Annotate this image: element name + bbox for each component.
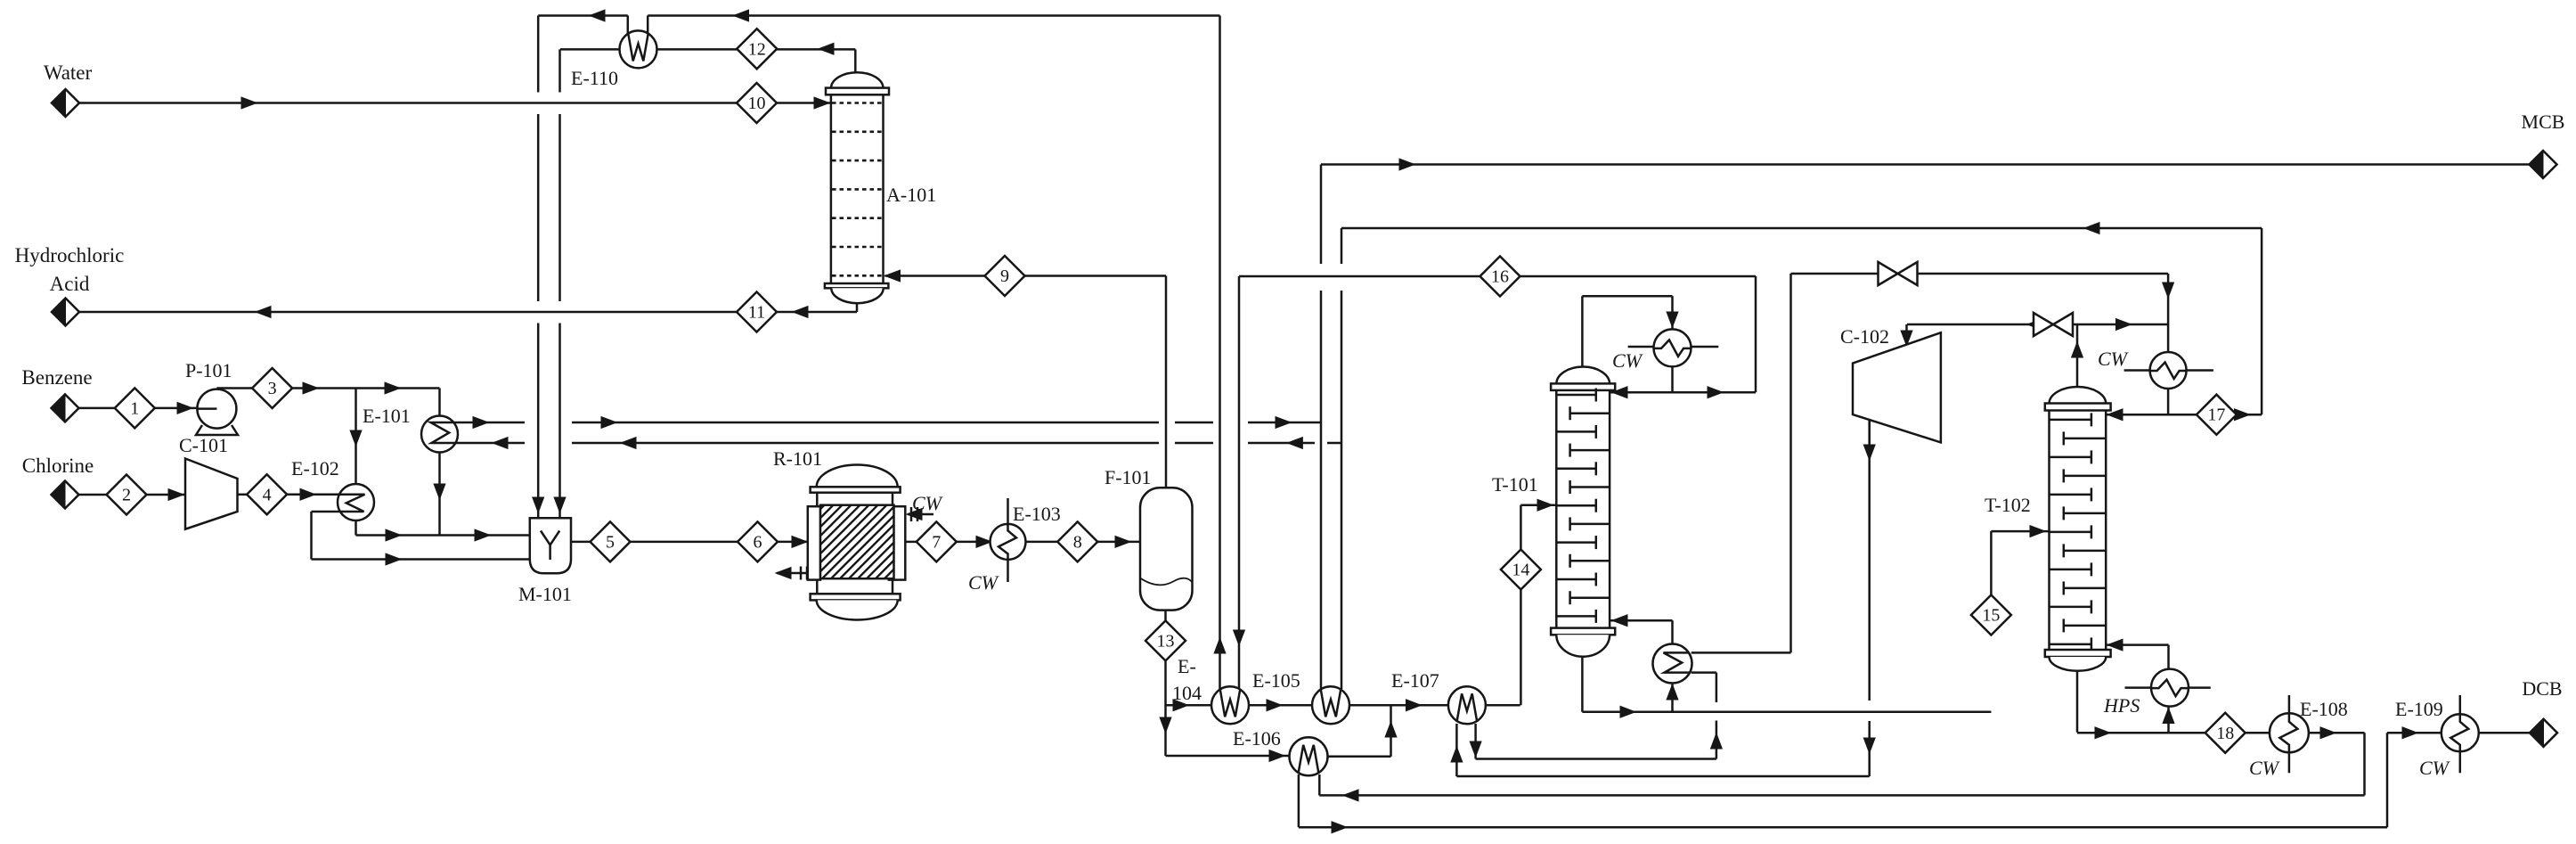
svg-text:P-101: P-101 [185,359,232,381]
svg-text:E-107: E-107 [1391,669,1439,692]
wire: E-106 coil to DCB cooling train (y=892.4) [1318,774,1321,795]
valve on heat pump return header [1879,262,1898,285]
wire: T-102 condenser CW stubs [2124,369,2150,372]
feed node Water [52,89,79,117]
wire: stream 9 line F-101 vapor to A-101 (y=309.5) [885,275,1167,277]
wire: stream 3 from P-101 to E-101 [216,387,252,389]
stream diamond 4 [247,474,287,514]
svg-text:14: 14 [1512,561,1529,580]
heat exchanger E-103 [990,524,1026,560]
T-101 reboiler [1653,644,1692,684]
wire: recycle line y=256 from T-102 distillate [1341,227,2262,230]
mixer M-101 [530,518,571,573]
wire: chlorine feed to C-101 [79,494,107,496]
wire: E-104 to E-110 coil header (top, y=17.5) [648,14,1219,17]
wire: reboiler vapor return to T-101 [1671,620,1674,644]
svg-text:E-105: E-105 [1252,669,1300,692]
wire: interchanger line A (y=474) [454,422,1322,424]
svg-text:2: 2 [122,486,131,505]
wire: E-109 cooling water line [2459,695,2462,773]
wire: stream 4 from C-101 to E-102 [238,494,248,496]
svg-text:E-110: E-110 [571,67,618,89]
svg-text:MCB: MCB [2522,111,2565,133]
svg-text:E-106: E-106 [1233,727,1281,750]
stream diamond 12 [737,29,777,69]
wire: branch down into E-102 top [355,389,357,486]
heat exchanger E-106 [1290,737,1328,775]
feed node Chlorine [52,481,79,509]
stream diamond 13 [1145,620,1186,660]
wire: stream 16 line T-101 distillate header (y=307) [1239,275,1756,278]
stream diamond 7 [917,521,957,561]
absorber column A-101 [831,72,884,88]
wire: stream 14 riser E-107 to T-101 feed [1520,505,1522,550]
svg-text:T-101: T-101 [1492,473,1538,496]
heat exchanger E-108 [2270,713,2309,752]
wire: MCB product line (y=184.5) [1321,163,2530,166]
wire: E-106 coil outlet line (y=928.2) [1298,774,1300,827]
svg-text:E-103: E-103 [1013,503,1061,525]
svg-text:Water: Water [44,61,93,84]
wire: F-101 bottoms through diamond 13 [1164,610,1167,621]
wire: E-103 cooling water line [1007,498,1009,582]
heat exchanger E-110 [620,30,657,68]
svg-text:104: 104 [1172,682,1202,704]
product node MCB [2530,151,2557,178]
wire: heat pump return header (y=307) with valve to T-102 condenser [1791,273,2169,275]
svg-text:6: 6 [754,532,762,552]
wire: E-102 chlorine outlet elbow [312,511,342,513]
wire: left downcomer to M-101 [537,16,540,518]
svg-text:CW: CW [2419,757,2450,779]
wire: A-101 bottoms elbow [856,303,859,313]
svg-text:A-101: A-101 [886,184,936,206]
wire: E-101 process outlet drop to mix header [438,453,441,536]
svg-text:Benzene: Benzene [21,366,92,389]
svg-text:E-: E- [1178,655,1196,677]
stream diamond 10 [737,83,777,123]
wire: riser from E-104 coil to top header [1219,16,1221,691]
HPS reboiler heater for T-102 [2151,669,2189,707]
wire: benzene mix header into M-101 (y=600.5) [355,520,357,536]
flash drum F-101 [1140,488,1193,610]
wire: stream 16 downcomer into E-104 coil [1238,276,1241,690]
wire: reboiler coil inlet from E-107 loop [1692,671,1716,674]
wire: T-102 overhead header with valve to C-102 (y=364) [1907,324,2168,326]
wire: downcomer to F-101 top [1165,276,1168,489]
wire: stream 7 R-101 outlet to E-103 [905,541,917,544]
svg-text:7: 7 [932,532,941,552]
svg-text:CW: CW [2098,348,2129,370]
wire: E-110 coil top-left stub [627,16,630,38]
wire: stream 5/6 mixer outlet to R-101 (y=608) [571,541,591,544]
svg-text:F-101: F-101 [1105,466,1152,488]
wire: T-101 condenser CW stubs [1628,346,1655,348]
wire: F-101 liquid to E-104 (y=791.3) [1166,704,1212,707]
wire: condenser drop T-102 [2167,324,2170,353]
heat exchanger E-101 [421,416,458,453]
wire: riser from 17 to recycle header [2261,228,2263,414]
svg-text:15: 15 [1982,606,2000,626]
wire: E-104 to E-105 [1249,704,1312,707]
wire: water feed line to diamond 10 and A-101 [79,102,738,104]
svg-text:12: 12 [748,39,766,59]
wire: interchanger line B (y=497) [456,442,1342,445]
svg-text:17: 17 [2207,406,2225,425]
wire: E-107 outlet to riser [1486,704,1520,707]
svg-text:5: 5 [606,532,615,552]
svg-text:R-101: R-101 [773,447,822,470]
wire: E-106 outlet riser to junction [1328,756,1391,758]
wire: T-101 reflux / distillate line (y=440.2) [1610,391,1756,394]
stream diamond 1 [115,388,155,428]
stream diamond 15 [1971,595,2011,635]
wire: A-101 overhead stub [854,49,857,73]
wire: condenser outlet to reflux line [1671,367,1674,393]
stream diamond 11 [737,292,777,332]
stream diamond 3 [252,368,292,408]
compressor C-101 [185,459,238,529]
T-101 condenser [1654,329,1692,366]
reactor R-101 CW inlet top right [908,513,933,516]
wire: C-102 discharge drop [1868,420,1871,452]
wire: stream 18 to E-108 [2246,732,2270,734]
column T-101 [1556,367,1610,384]
stream diamond 8 [1057,521,1097,561]
wire: HPS heater stubs [2125,686,2152,689]
svg-text:CW: CW [912,492,943,514]
wire: T-102 bottoms line [2076,671,2079,733]
heat exchanger E-102 [338,484,374,520]
pump P-101 [197,389,236,429]
wire: HPS vapor return to T-102 [2167,645,2170,669]
wire: E-101 process inlet drop [438,389,441,417]
product node DCB [2530,719,2557,747]
svg-text:CW: CW [2249,757,2280,779]
svg-text:T-102: T-102 [1985,494,2031,516]
wire: HPS reboiler feed branch [2167,707,2170,733]
wire: C-102 discharge to E-107 coil (y=871) [1455,724,1458,776]
wire: reboiler feed branch [1671,684,1674,712]
compressor C-102 [1853,332,1941,442]
stream diamond 14 [1501,550,1541,590]
stream diamond 17 [2197,395,2237,435]
wire: T-101 overhead to condenser [1581,296,1584,367]
svg-text:HPS: HPS [2103,694,2140,717]
svg-text:11: 11 [748,303,765,323]
valve on T-102 overhead to C-102 [2034,313,2053,336]
svg-text:Acid: Acid [50,273,90,295]
svg-text:3: 3 [268,379,277,398]
wire: T-101 bottoms line (y=798.8) [1581,657,1584,712]
wire: E-107 coil outlet loop to reboiler [1474,724,1477,759]
wire: stream 15 riser to T-102 feed [1990,595,1993,635]
svg-text:M-101: M-101 [518,583,572,605]
svg-text:C-101: C-101 [179,434,228,456]
wire: E-106 feed line (y=848) [1166,755,1290,758]
svg-text:9: 9 [1000,266,1009,286]
wire: stream 8 E-103 to F-101 [1026,541,1058,544]
svg-text:18: 18 [2216,724,2234,743]
stream diamond 16 [1480,257,1520,297]
svg-text:16: 16 [1491,267,1509,287]
stream diamond 6 [738,521,778,561]
wire: riser to stream 16 header [1755,276,1757,392]
wire: reboiler coil outlet to riser [1692,651,1791,654]
wire: chlorine line into M-101 (y=627.5) [312,558,530,561]
column T-102 [2050,387,2107,404]
wire: riser from E-105 coil to MCB line [1320,165,1323,690]
heat exchanger E-105 [1312,686,1349,724]
svg-text:Chlorine: Chlorine [22,455,94,477]
svg-text:1: 1 [130,398,139,418]
svg-text:E-108: E-108 [2300,698,2348,720]
wire: DCB line riser and E-109 [2386,733,2389,827]
stream diamond 9 [985,256,1025,296]
heat exchanger E-104 [1211,686,1249,724]
svg-text:Hydrochloric: Hydrochloric [15,244,125,266]
svg-text:E-102: E-102 [291,457,339,479]
wire: E-110 coil top-right stub [647,16,649,38]
wire: right downcomer to M-101 [558,49,561,517]
svg-text:CW: CW [968,571,999,594]
wire: benzene feed to P-101 [79,407,116,410]
wire: downcomer from y=256 into E-105 coil [1341,228,1343,689]
heat exchanger E-107 [1448,686,1486,724]
svg-text:13: 13 [1157,631,1175,651]
svg-text:DCB: DCB [2522,677,2562,700]
stream diamond 18 [2205,713,2246,753]
wire: T-102 reflux / stream 17 line (y=465.2) [2106,414,2262,416]
heat exchanger E-109 [2441,714,2479,751]
wire: E-108 cooling water line [2288,695,2291,773]
reactor R-101 [817,465,898,488]
wire: E-105 to junction to E-107 [1349,704,1448,707]
svg-text:E-109: E-109 [2395,698,2443,720]
svg-text:10: 10 [748,94,766,113]
svg-text:8: 8 [1073,532,1082,552]
feed node Benzene [52,394,79,422]
svg-text:4: 4 [263,485,272,504]
wire: T-102 overhead riser [2076,324,2079,392]
wire: drop into C-102 suction [1905,324,1908,344]
svg-text:CW: CW [1612,349,1643,372]
stream diamond 2 [107,475,147,515]
svg-text:C-102: C-102 [1840,325,1889,348]
T-102 condenser [2150,352,2187,389]
wire: hydrochloric acid product line from A-101 bottoms [79,311,738,314]
svg-text:E-101: E-101 [363,405,411,427]
feed node Hydrochloric Acid [52,299,79,326]
stream diamond 5 [591,521,631,561]
wire: E-108 outlet down and left (y=892.4 join) [2309,732,2365,734]
wire: stream 12 line A-101 overhead through E-110 (y=55.4) [560,48,855,51]
reactor R-101 CW outlet bottom left [777,572,806,575]
wire: E-110 coil outlet header (top left, y=17.5) [538,14,628,17]
